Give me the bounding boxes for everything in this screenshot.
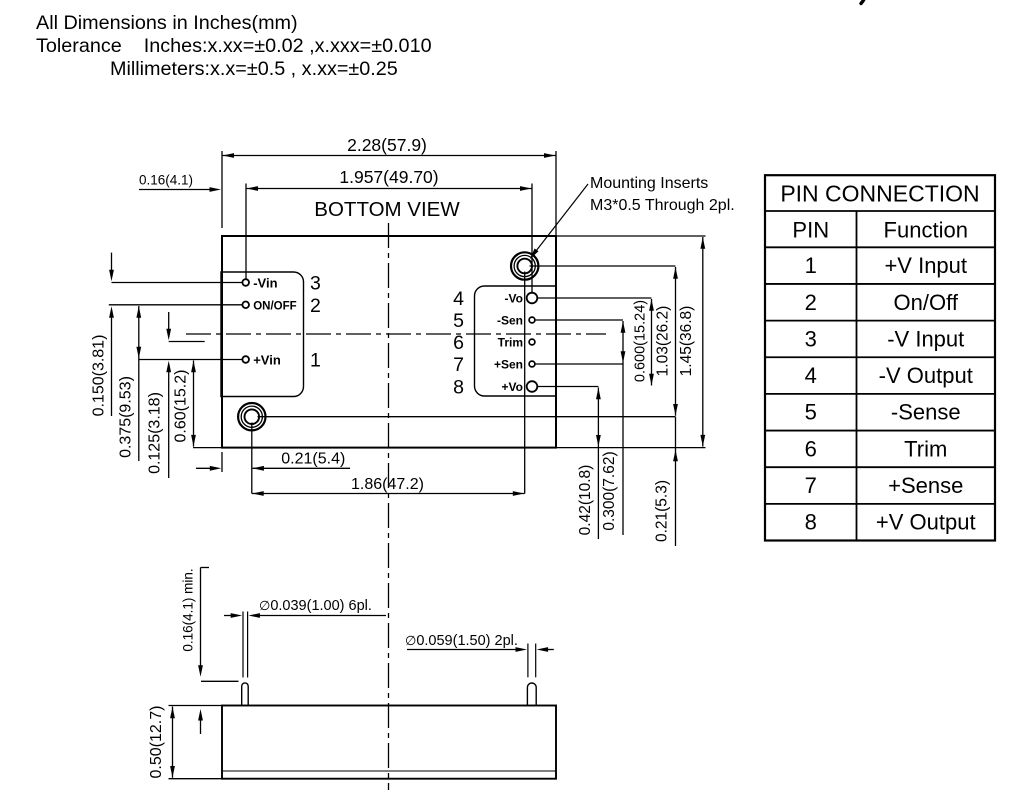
svg-text:5: 5 <box>453 310 464 332</box>
dimension 0.21(5.4) <box>196 451 350 473</box>
svg-text:6: 6 <box>453 332 464 354</box>
wire hole bottom-left horizontal leader <box>258 416 676 418</box>
dimension 0.16(4.1) left offset <box>139 173 221 192</box>
mounting hole top-right <box>511 252 538 279</box>
svg-text:1.86(47.2): 1.86(47.2) <box>351 476 424 493</box>
wire leader +Vin <box>139 359 243 361</box>
table row pin 3 <box>805 326 965 351</box>
vertical centerline <box>388 223 390 790</box>
pin 5 -Sen <box>453 310 535 332</box>
svg-text:Millimeters:x.x=±0.5 , x.xx=±0: Millimeters:x.x=±0.5 , x.xx=±0.25 <box>110 58 398 80</box>
svg-text:8: 8 <box>805 510 817 535</box>
table row pin 7 <box>805 473 964 498</box>
svg-text:BOTTOM VIEW: BOTTOM VIEW <box>314 198 460 221</box>
wire leader pin8 +Vo <box>537 386 598 388</box>
side view pin left <box>242 612 249 706</box>
svg-text:4: 4 <box>805 363 817 388</box>
dimension 1.86(47.2) <box>252 476 525 496</box>
pin 8 +Vo <box>453 377 537 399</box>
svg-text:0.60(15.2): 0.60(15.2) <box>172 370 189 443</box>
svg-text:4: 4 <box>453 288 464 310</box>
wire hole bottom-left vertical leader <box>251 423 253 494</box>
svg-text:+Sen: +Sen <box>494 358 523 372</box>
svg-text:-V Input: -V Input <box>887 326 964 351</box>
pin 7 +Sen <box>453 354 535 376</box>
svg-text:2.28(57.9): 2.28(57.9) <box>347 135 427 155</box>
BOTTOM VIEW title <box>314 198 460 221</box>
svg-text:On/Off: On/Off <box>894 290 959 315</box>
svg-text:2: 2 <box>310 295 321 317</box>
dimension 0.16(4.1) min pin length <box>180 568 238 735</box>
svg-text:PIN CONNECTION: PIN CONNECTION <box>780 181 979 207</box>
table row pin 6 <box>805 436 948 461</box>
svg-text:7: 7 <box>453 354 464 376</box>
dimension 2.28(57.9) <box>222 135 556 236</box>
pin 1 +Vin <box>242 350 320 372</box>
wire hole top-right vertical leader <box>524 272 526 494</box>
svg-text:+Vo: +Vo <box>502 380 523 394</box>
svg-text:0.50(12.7): 0.50(12.7) <box>148 706 165 779</box>
svg-text:7: 7 <box>805 473 817 498</box>
dimension 0.059(1.50) 2pl pin diameter <box>405 633 554 652</box>
svg-text:6: 6 <box>805 436 817 461</box>
svg-text:+V Input: +V Input <box>884 253 967 278</box>
svg-text:0.16(4.1): 0.16(4.1) <box>139 173 193 188</box>
svg-text:∅0.059(1.50) 2pl.: ∅0.059(1.50) 2pl. <box>405 633 518 649</box>
svg-text:M3*0.5 Through 2pl.: M3*0.5 Through 2pl. <box>590 197 735 214</box>
dimension 0.300(7.62) <box>601 321 625 535</box>
dimension 0.039(1.00) 6pl pin diameter <box>224 598 386 618</box>
tolerance note <box>36 12 432 80</box>
table row pin 5 <box>805 400 961 425</box>
svg-text:∅0.039(1.00) 6pl.: ∅0.039(1.00) 6pl. <box>259 598 372 614</box>
module body side view <box>222 706 556 779</box>
svg-text:Trim: Trim <box>498 336 523 350</box>
svg-text:PIN: PIN <box>792 218 829 243</box>
wire leader ON/OFF <box>109 304 243 306</box>
wire leader pin4 -Vo <box>537 297 651 299</box>
svg-text:0.21(5.3): 0.21(5.3) <box>654 480 671 542</box>
table row pin 8 <box>805 510 976 535</box>
svg-text:2: 2 <box>805 290 817 315</box>
svg-text:Mounting Inserts: Mounting Inserts <box>590 175 708 192</box>
wire leader pin7 +Sen <box>535 363 623 365</box>
dimension 0.60(15.2) <box>172 361 222 448</box>
stray comma artifact top-right <box>861 0 867 4</box>
dimension 0.42(10.8) <box>577 388 601 540</box>
pin 3 -Vin <box>242 273 320 295</box>
svg-text:0.125(3.18): 0.125(3.18) <box>146 392 163 474</box>
left pin group box <box>221 272 304 397</box>
svg-text:0.300(7.62): 0.300(7.62) <box>601 451 618 530</box>
svg-text:3: 3 <box>805 326 817 351</box>
svg-text:+Sense: +Sense <box>888 473 963 498</box>
svg-text:-Vo: -Vo <box>505 292 523 306</box>
svg-text:0.16(4.1) min.: 0.16(4.1) min. <box>180 568 195 651</box>
dimension 0.375(9.53) <box>117 306 141 461</box>
pin connection table frame <box>765 175 995 540</box>
svg-text:-V Output: -V Output <box>879 363 973 388</box>
svg-text:-Sense: -Sense <box>891 400 961 425</box>
svg-text:Trim: Trim <box>904 436 947 461</box>
dimension 0.125(3.18) with centerline stub <box>146 312 204 478</box>
svg-text:-Vin: -Vin <box>253 276 277 291</box>
svg-text:0.21(5.4): 0.21(5.4) <box>281 451 345 468</box>
mounting inserts callout <box>530 175 735 259</box>
right pin group box <box>475 286 558 396</box>
dimension 0.21(5.3) <box>654 417 678 546</box>
svg-text:+V Output: +V Output <box>876 510 976 535</box>
pin 4 -Vo <box>453 288 537 310</box>
wire hole top-right horizontal leader <box>530 265 676 267</box>
svg-text:-Sen: -Sen <box>497 314 523 328</box>
dimension 0.150(3.81) <box>90 253 114 417</box>
dimension 0.600(15.24) <box>633 299 654 386</box>
dimension 1.45(36.8) <box>556 236 706 448</box>
dimension 0.50(12.7) <box>148 706 222 779</box>
svg-text:5: 5 <box>805 400 817 425</box>
dimension 1.957(49.70) <box>246 167 532 293</box>
table header PIN CONNECTION <box>780 181 979 207</box>
table row pin 1 <box>805 253 967 278</box>
svg-text:ON/OFF: ON/OFF <box>253 300 296 312</box>
svg-text:3: 3 <box>310 273 321 295</box>
dimension 1.03(26.2) <box>655 267 678 416</box>
svg-text:1: 1 <box>805 253 817 278</box>
table row pin 2 <box>805 290 959 315</box>
svg-text:Function: Function <box>884 218 968 243</box>
horizontal centerline <box>186 333 606 335</box>
wire leader pin5 -Sen <box>535 319 623 321</box>
svg-text:1: 1 <box>310 350 321 372</box>
wire leader -Vin <box>112 282 243 284</box>
svg-text:0.600(15.24): 0.600(15.24) <box>633 300 649 382</box>
mounting hole bottom-left <box>238 403 265 430</box>
svg-text:0.375(9.53): 0.375(9.53) <box>117 376 134 458</box>
svg-text:Tolerance Inches:x.xx=±0.02: Tolerance Inches:x.xx=±0.02 ,x.xxx=±0.01… <box>36 35 432 57</box>
svg-text:1.45(36.8): 1.45(36.8) <box>678 306 695 377</box>
svg-text:+Vin: +Vin <box>253 353 281 368</box>
svg-text:1.957(49.70): 1.957(49.70) <box>339 167 438 187</box>
module outline bottom view <box>222 236 556 448</box>
side view pin right <box>527 644 536 706</box>
svg-text:0.150(3.81): 0.150(3.81) <box>90 335 107 417</box>
svg-text:All Dimensions in Inches(mm): All Dimensions in Inches(mm) <box>36 12 298 34</box>
svg-text:1.03(26.2): 1.03(26.2) <box>655 306 672 377</box>
svg-text:8: 8 <box>453 377 464 399</box>
table row pin 4 <box>805 363 973 388</box>
svg-text:0.42(10.8): 0.42(10.8) <box>577 465 594 536</box>
pin 2 ON/OFF <box>242 295 320 317</box>
pin 6 Trim <box>453 332 535 354</box>
table subheader <box>792 218 968 243</box>
